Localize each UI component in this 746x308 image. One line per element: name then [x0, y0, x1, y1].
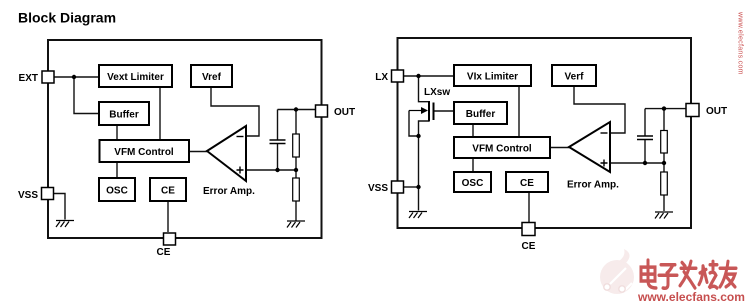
box Buffer: [99, 102, 149, 125]
watermark text CJK (drawn strokes): [641, 260, 736, 288]
svg-text:CE: CE: [522, 241, 536, 252]
resistor R2 leads: [295, 170, 297, 221]
transistor LXsw source lead: [419, 121, 430, 136]
wire transistor to VSS node and ground: [418, 136, 420, 211]
glyph zi: [659, 265, 677, 288]
pin CE right: [522, 223, 536, 253]
resistor R4 leads: [663, 163, 665, 211]
pin OUT left: [316, 105, 356, 118]
wire VFM Control to OSC: [472, 158, 474, 172]
wire VIx Limiter to VFM Control: [518, 86, 520, 137]
junction dots right: [416, 74, 666, 189]
svg-text:VFM Control: VFM Control: [114, 147, 174, 158]
svg-text:Vref: Vref: [202, 72, 222, 83]
wire EXT to Vext Limiter: [54, 76, 99, 78]
wire op-amp plus input rail: [610, 162, 664, 164]
transistor body line: [409, 111, 419, 137]
box OSC: [99, 178, 135, 201]
box Buffer right: [454, 102, 507, 124]
box VFM Control: [100, 140, 190, 162]
wire VFM Control to OSC: [116, 162, 118, 178]
transistor Q1 LXsw: [409, 101, 434, 122]
wire Buffer to VFM Control: [116, 125, 118, 140]
box Verf: [552, 65, 596, 86]
svg-text:CE: CE: [161, 186, 175, 197]
box OSC right: [454, 172, 491, 192]
pin VSS right: [368, 181, 404, 194]
pin VSS: [18, 188, 54, 202]
wire op-amp plus input rail: [246, 169, 296, 171]
glyph dian: [641, 260, 656, 288]
gate lead to Buffer: [434, 110, 455, 112]
glyph shao: [699, 261, 717, 288]
svg-text:www.elecfans.com: www.elecfans.com: [637, 290, 745, 304]
node EXT branch: [72, 75, 76, 79]
capacitor C2: [637, 136, 653, 140]
svg-text:LXsw: LXsw: [424, 87, 450, 98]
wire CE box to CE pin: [528, 192, 530, 222]
top rail to OUT right: [645, 108, 686, 110]
node rail/R1: [294, 107, 298, 111]
svg-text:CE: CE: [157, 247, 171, 258]
resistor R3 leads: [663, 109, 665, 163]
node transistor source/body: [416, 134, 420, 138]
node plus/cap: [275, 168, 279, 172]
wire Buffer to VFM Control: [472, 124, 474, 137]
svg-text:VFM Control: VFM Control: [472, 144, 532, 155]
pin CE left: [157, 233, 176, 258]
svg-text:www.elecfans.com: www.elecfans.com: [737, 11, 744, 75]
box VFM Control right: [454, 137, 550, 158]
svg-text:Block Diagram: Block Diagram: [18, 10, 116, 26]
ground under transistor right: [409, 212, 427, 219]
resistor R1 leads: [295, 110, 297, 171]
wire CE box to CE pin: [167, 201, 169, 232]
svg-text:VSS: VSS: [18, 190, 38, 201]
op-amp U2 Error Amp: [567, 122, 619, 191]
op-amp U1 Error Amp: [203, 126, 255, 197]
svg-text:LX: LX: [375, 72, 388, 83]
junction dots left: [72, 75, 298, 172]
node plus/divider right: [662, 161, 666, 165]
svg-text:Buffer: Buffer: [466, 109, 496, 120]
box Vext Limiter: [99, 65, 172, 87]
node LX branch: [416, 74, 420, 78]
capacitor C1 leads: [277, 110, 279, 171]
pin EXT: [19, 71, 54, 84]
ground under R2 left: [287, 221, 305, 228]
wire LX to VIx Limiter: [404, 75, 455, 77]
ground under R4 right: [655, 212, 673, 219]
box CE right: [506, 172, 548, 192]
capacitor C2 leads: [644, 109, 646, 163]
ground under VSS left: [56, 221, 74, 228]
wire LX down to transistor drain: [419, 76, 430, 102]
node rail/R3: [662, 106, 666, 110]
svg-text:Buffer: Buffer: [109, 110, 139, 121]
wire VFM Control to op-amp output: [189, 151, 207, 153]
wire VSS to ground: [54, 194, 65, 220]
svg-text:CE: CE: [520, 178, 534, 189]
box Vref: [191, 65, 232, 87]
svg-text:EXT: EXT: [19, 73, 38, 84]
resistor R1: [293, 134, 300, 157]
svg-text:OUT: OUT: [706, 106, 727, 117]
node plus/divider: [294, 168, 298, 172]
wire Verf to op-amp minus input: [574, 86, 625, 133]
outer box right IC: [398, 38, 692, 228]
wire branch to Buffer: [74, 77, 99, 114]
svg-text:Vext Limiter: Vext Limiter: [107, 72, 164, 83]
wire VFM Control to op-amp output: [550, 147, 569, 149]
watermark logo circle: [600, 249, 634, 294]
glyph fa: [680, 261, 696, 288]
box CE: [150, 178, 186, 201]
wire Vext Limiter to VFM Control: [159, 87, 161, 140]
svg-text:OSC: OSC: [106, 186, 128, 197]
capacitor C1: [270, 140, 286, 144]
svg-text:Verf: Verf: [565, 72, 585, 83]
resistor R2: [293, 178, 300, 201]
svg-text:VIx Limiter: VIx Limiter: [467, 72, 518, 83]
pin LX: [375, 70, 403, 83]
top rail to OUT: [278, 109, 316, 111]
svg-text:OUT: OUT: [334, 107, 355, 118]
svg-text:Error Amp.: Error Amp.: [203, 186, 255, 197]
node VSS: [416, 185, 420, 189]
pin OUT right: [686, 104, 727, 118]
glyph you: [720, 261, 736, 287]
wire VSS pin to node: [404, 186, 419, 188]
svg-text:VSS: VSS: [368, 183, 388, 194]
resistor R4: [661, 172, 668, 195]
box VIx Limiter: [454, 65, 531, 86]
svg-text:OSC: OSC: [462, 178, 484, 189]
node plus/cap right: [643, 161, 647, 165]
resistor R3: [661, 131, 668, 154]
svg-text:Error Amp.: Error Amp.: [567, 180, 619, 191]
outer box left IC: [48, 40, 322, 238]
wire Vref to op-amp minus input: [211, 87, 259, 136]
